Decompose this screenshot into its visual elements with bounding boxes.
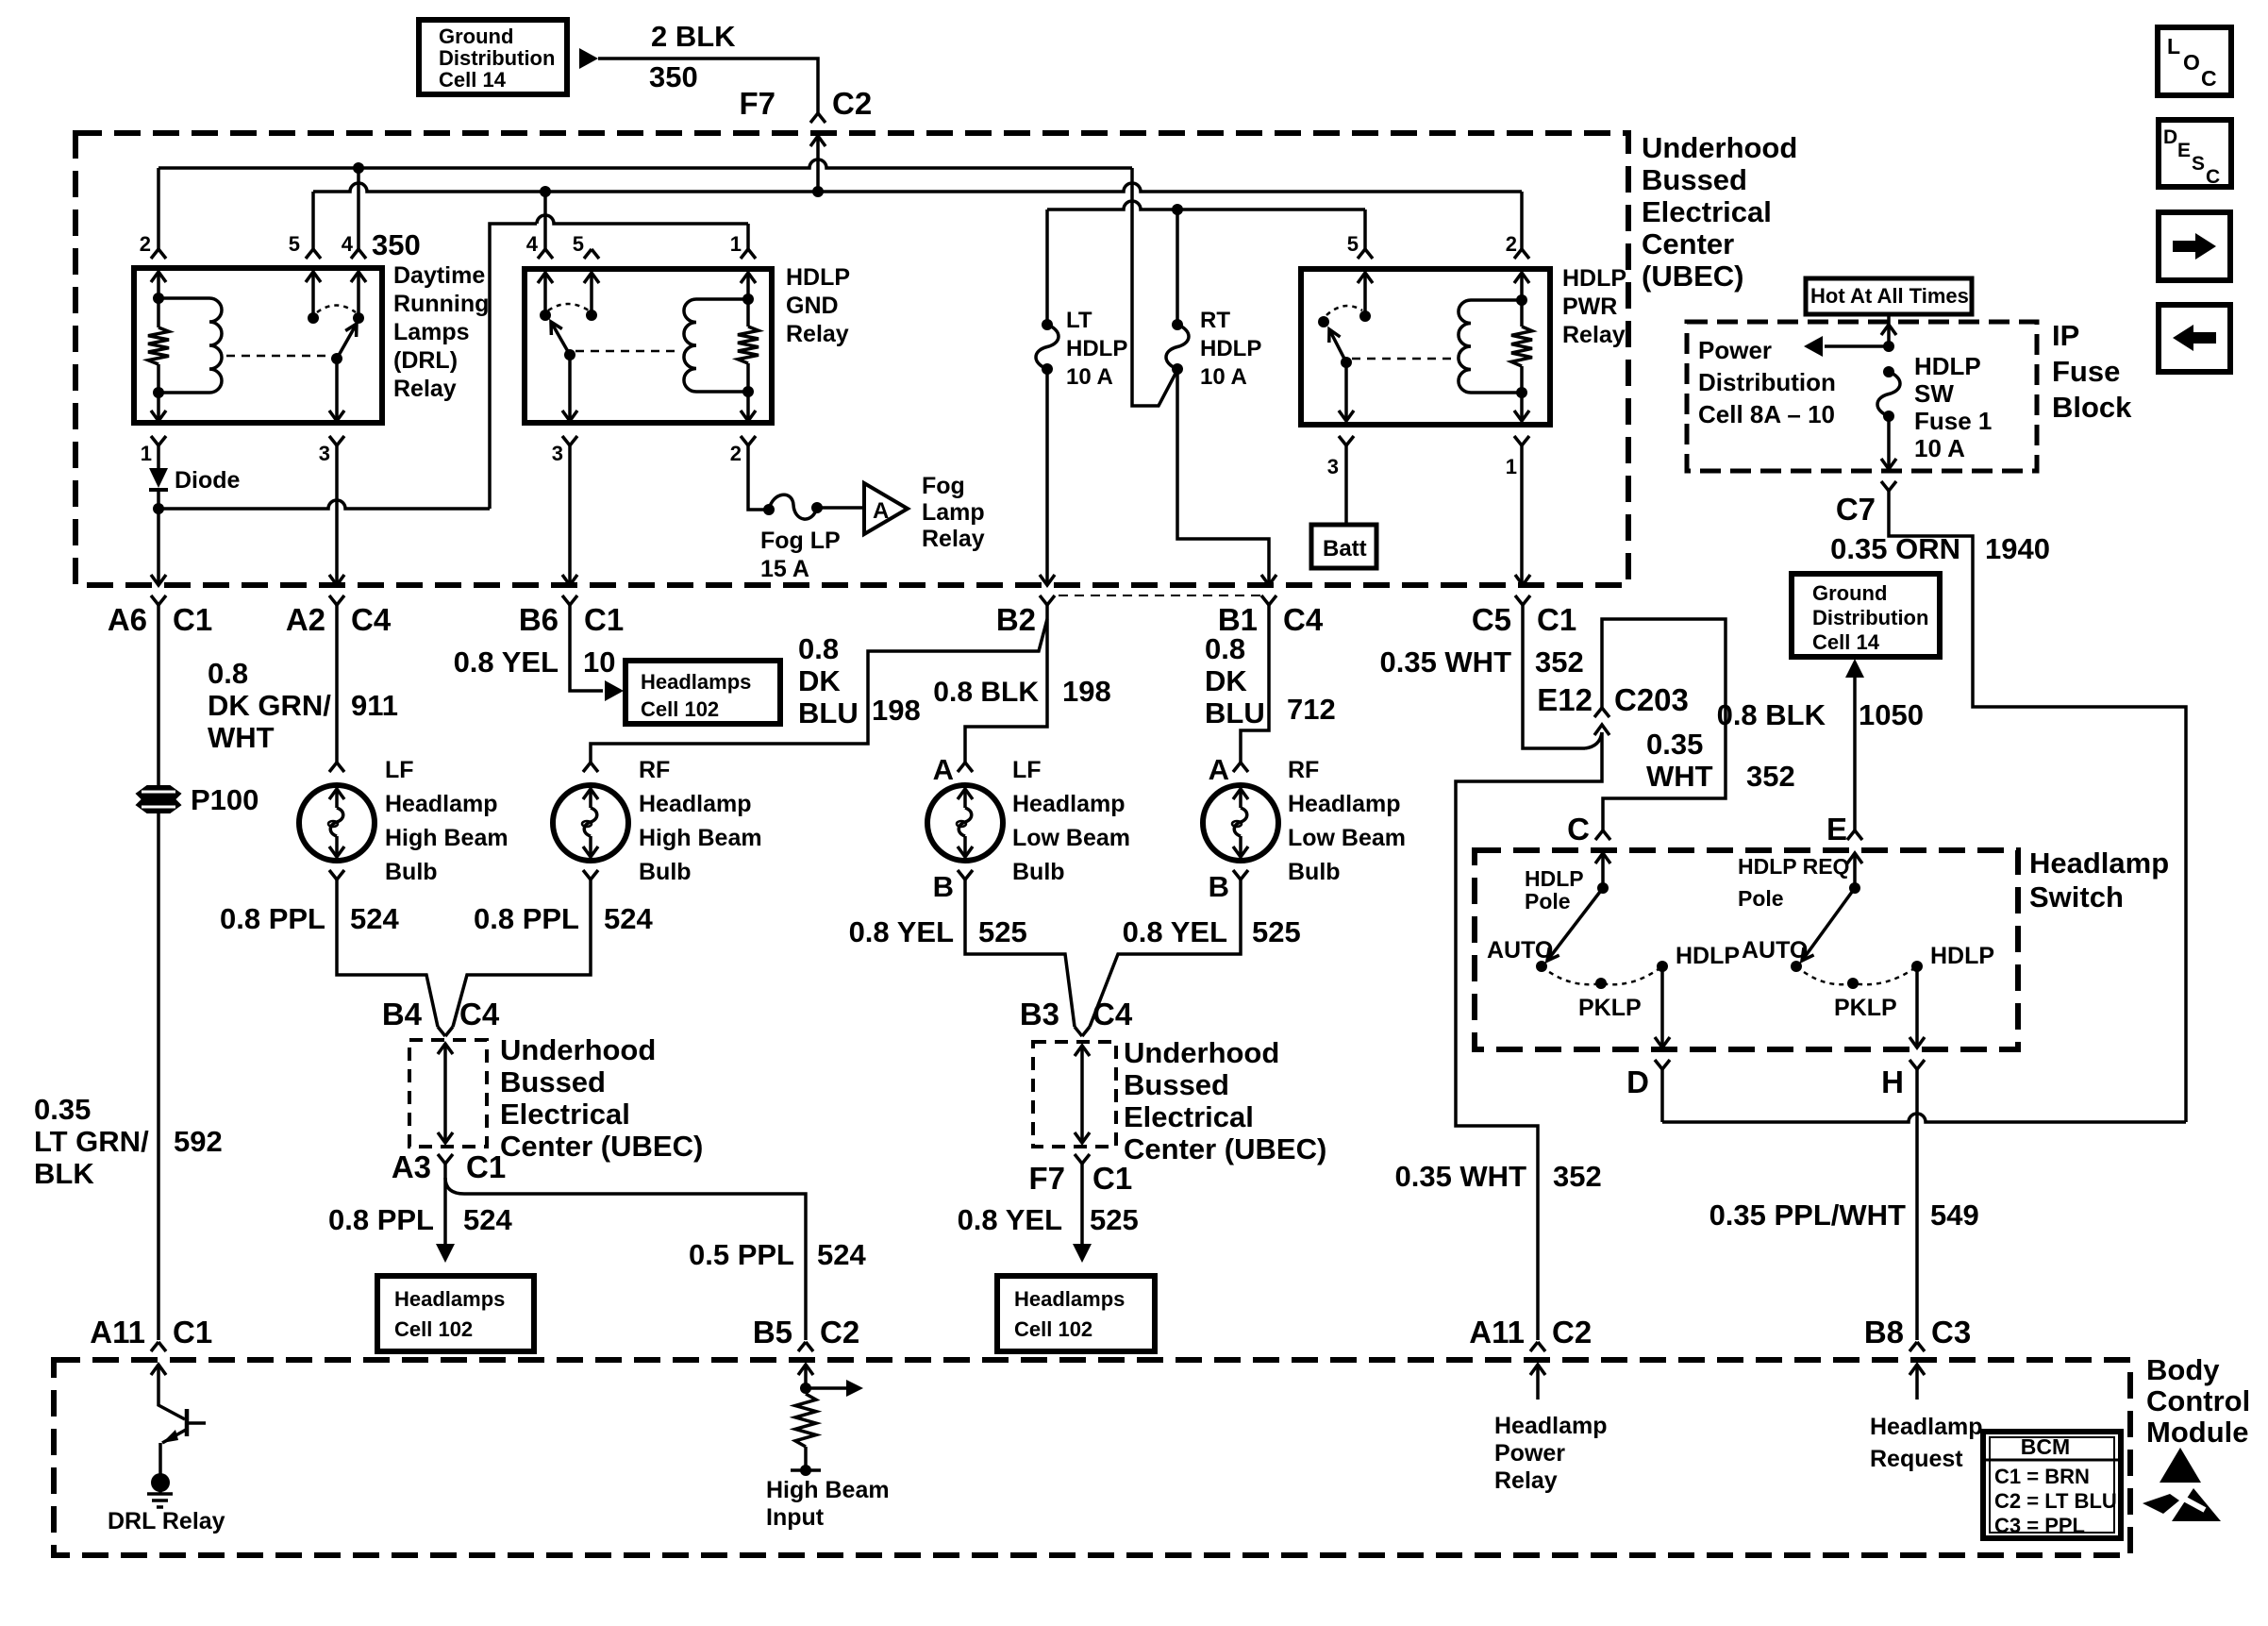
wire B1 to RF low bulb bbox=[1241, 605, 1269, 763]
HDLP GND pin4 stub bbox=[538, 273, 553, 283]
wire A2 to LF high bulb bbox=[335, 605, 339, 763]
connector LF high bulb B bbox=[329, 870, 344, 880]
svg-text:Module: Module bbox=[2146, 1416, 2249, 1449]
reference arrow to headlamps cell (A3) bbox=[436, 1244, 455, 1263]
switch E AUTO contact bbox=[1791, 961, 1802, 972]
wire RF high B to B4 bbox=[453, 880, 591, 1027]
resistor HDLP PWR bbox=[1520, 300, 1524, 327]
svg-text:Bulb: Bulb bbox=[1288, 859, 1341, 885]
svg-text:0.8 PPL: 0.8 PPL bbox=[220, 902, 325, 935]
DRL pin3 stub bbox=[335, 359, 339, 421]
svg-text:Ground: Ground bbox=[439, 25, 513, 48]
coil HDLP GND bbox=[684, 299, 696, 392]
svg-text:B6: B6 bbox=[519, 602, 559, 637]
svg-text:0.35: 0.35 bbox=[1646, 728, 1703, 761]
svg-text:C203: C203 bbox=[1614, 682, 1689, 717]
wire LF high B to B4 bbox=[337, 880, 438, 1027]
svg-text:DK GRN/: DK GRN/ bbox=[208, 689, 331, 722]
HDLP GND pivot bbox=[564, 349, 575, 360]
svg-text:0.8 YEL: 0.8 YEL bbox=[1123, 915, 1227, 948]
UBEC small dashed box (B3) bbox=[1033, 1042, 1116, 1147]
HDLP GND coil top junction bbox=[742, 293, 754, 305]
svg-text:Relay: Relay bbox=[1494, 1467, 1558, 1494]
svg-text:A: A bbox=[873, 498, 889, 524]
wire diode run horizontal bbox=[158, 500, 490, 509]
svg-text:Cell 8A – 10: Cell 8A – 10 bbox=[1698, 400, 1835, 428]
svg-text:524: 524 bbox=[604, 902, 653, 935]
switch E pole dot bbox=[1849, 882, 1860, 894]
svg-text:Center: Center bbox=[1642, 227, 1734, 260]
connector pin 2 HDLP PWR bbox=[1514, 249, 1529, 259]
switch C pole dot bbox=[1597, 882, 1609, 894]
ground symbol bbox=[147, 1492, 173, 1496]
svg-text:0.5 PPL: 0.5 PPL bbox=[689, 1238, 794, 1271]
wire DRL pin3 down to A2 bbox=[335, 445, 339, 585]
svg-text:Electrical: Electrical bbox=[1642, 195, 1772, 228]
svg-text:Fog LP: Fog LP bbox=[760, 528, 841, 554]
connector pin 1 HDLP GND bbox=[741, 249, 756, 259]
connector pin 2 DRL bbox=[151, 249, 166, 259]
dashed link between B2 and B1 connectors bbox=[1059, 595, 1261, 596]
svg-text:(UBEC): (UBEC) bbox=[1642, 260, 1744, 293]
svg-text:Underhood: Underhood bbox=[500, 1033, 656, 1066]
svg-text:Cell 14: Cell 14 bbox=[1812, 630, 1880, 654]
switch E blade bbox=[1802, 888, 1855, 961]
bulb LF headlamp low beam bbox=[927, 785, 1003, 861]
svg-text:525: 525 bbox=[1090, 1203, 1139, 1236]
svg-text:1: 1 bbox=[141, 442, 152, 465]
connector C5 C1 bbox=[1515, 575, 1530, 585]
svg-text:0.8 YEL: 0.8 YEL bbox=[454, 645, 559, 679]
svg-text:C1 = BRN: C1 = BRN bbox=[1994, 1465, 2090, 1488]
DRL pin2 stub bbox=[151, 272, 166, 282]
svg-text:P100: P100 bbox=[191, 783, 258, 816]
svg-text:592: 592 bbox=[174, 1125, 223, 1158]
svg-text:Relay: Relay bbox=[786, 321, 849, 347]
svg-text:Cell 102: Cell 102 bbox=[394, 1317, 473, 1341]
svg-text:Control: Control bbox=[2146, 1384, 2250, 1417]
connector D fork bbox=[1655, 1060, 1670, 1069]
svg-text:L: L bbox=[2167, 34, 2180, 59]
svg-text:Distribution: Distribution bbox=[1698, 368, 1836, 396]
svg-text:C4: C4 bbox=[459, 997, 500, 1031]
connector pin 4 HDLP GND bbox=[538, 249, 553, 259]
svg-text:Cell 102: Cell 102 bbox=[1014, 1317, 1092, 1341]
reference arrow to power distribution bbox=[1804, 336, 1823, 357]
svg-text:HDLP: HDLP bbox=[1200, 336, 1261, 361]
connector C (switch) bbox=[1595, 830, 1610, 840]
svg-text:B3: B3 bbox=[1020, 997, 1059, 1031]
svg-text:Diode: Diode bbox=[175, 467, 241, 494]
cell box Headlamps Cell 102 (left) bbox=[377, 1276, 534, 1351]
svg-text:Request: Request bbox=[1870, 1446, 1963, 1472]
HDLP GND contact pin4 bbox=[540, 310, 551, 321]
wire E12 branch to A11 bbox=[1456, 732, 1602, 1340]
svg-text:Bussed: Bussed bbox=[1642, 163, 1747, 196]
wire C5 down bbox=[1523, 605, 1585, 748]
wire bus2 dot to HDLP GND pin4 bbox=[543, 192, 547, 249]
B3 internal arrow bbox=[1075, 1046, 1090, 1056]
B8 C3 stem bbox=[1915, 1365, 1919, 1400]
svg-text:2: 2 bbox=[140, 232, 151, 256]
HDLP GND mech link bbox=[575, 350, 681, 353]
wire HDLP GND pin3 to B6 bbox=[568, 445, 572, 585]
coil HDLP PWR bbox=[1459, 300, 1471, 393]
svg-text:10 A: 10 A bbox=[1914, 434, 1965, 462]
svg-text:0.8 BLK: 0.8 BLK bbox=[1717, 698, 1826, 731]
connector pin 3 HDLP PWR bbox=[1339, 436, 1354, 445]
HDLP PWR pin3 stub bbox=[1344, 362, 1348, 421]
switch C blade bbox=[1547, 888, 1603, 961]
svg-text:A6: A6 bbox=[108, 602, 147, 637]
coil DRL bbox=[158, 296, 209, 300]
DRL mechanical link bbox=[226, 355, 330, 358]
connector A11 C2 (BCM) bbox=[1530, 1342, 1545, 1351]
HDLP PWR travel arc bbox=[1326, 306, 1362, 315]
svg-text:A: A bbox=[1209, 753, 1229, 786]
connector E12 C203 bbox=[1594, 708, 1609, 717]
wire P100 to A11 bbox=[157, 812, 160, 1340]
fuse HDLP SW Fuse 1 10A bbox=[1877, 372, 1900, 416]
high beam branch arrow bbox=[806, 1386, 846, 1390]
wire B2 branch to RF high bulb bbox=[591, 619, 1047, 763]
svg-text:B5: B5 bbox=[753, 1315, 792, 1349]
svg-text:0.8 PPL: 0.8 PPL bbox=[474, 902, 579, 935]
HDLP PWR coil bottom junction bbox=[1516, 387, 1527, 398]
wire 3 (relay pin5 feed) bbox=[1047, 201, 1365, 210]
wire bus1 dot to DRL pin4 bbox=[357, 168, 360, 249]
svg-text:LF: LF bbox=[1012, 757, 1042, 783]
svg-text:C1: C1 bbox=[1537, 602, 1576, 637]
cell box Headlamps Cell 102 (top) bbox=[625, 661, 780, 724]
next page nav box bbox=[2159, 212, 2230, 280]
resistor high beam input bbox=[795, 1394, 816, 1447]
svg-text:RF: RF bbox=[639, 757, 670, 783]
connector E (switch) bbox=[1847, 830, 1862, 840]
svg-text:D: D bbox=[1626, 1064, 1649, 1099]
svg-text:Headlamp: Headlamp bbox=[1870, 1414, 1982, 1440]
HDLP GND pin5 stub bbox=[584, 273, 599, 283]
wire bus1 right end down bbox=[1132, 168, 1177, 406]
connector pin 1 DRL bbox=[151, 436, 166, 445]
connector RF low bulb B bbox=[1233, 870, 1248, 880]
HDLP PWR coil top junction bbox=[1516, 294, 1527, 306]
svg-text:A11: A11 bbox=[90, 1315, 145, 1349]
svg-text:Relay: Relay bbox=[1562, 322, 1626, 348]
svg-text:B8: B8 bbox=[1864, 1315, 1904, 1349]
svg-text:LT: LT bbox=[1066, 308, 1092, 333]
wire B6 down to cell ref bbox=[570, 605, 603, 691]
svg-text:AUTO: AUTO bbox=[1742, 937, 1808, 964]
connector pin 4 DRL bbox=[351, 249, 366, 259]
svg-text:Underhood: Underhood bbox=[1642, 131, 1797, 164]
svg-text:C: C bbox=[2206, 166, 2220, 188]
switch E travel arc bbox=[1796, 966, 1917, 984]
svg-text:BLU: BLU bbox=[798, 696, 859, 729]
svg-text:Headlamp: Headlamp bbox=[1494, 1413, 1607, 1439]
svg-text:0.8: 0.8 bbox=[798, 632, 839, 665]
svg-text:SW: SW bbox=[1914, 379, 1954, 408]
switch C PKLP contact bbox=[1595, 978, 1607, 989]
svg-text:H: H bbox=[1881, 1064, 1904, 1099]
HDLP GND pin3 stub bbox=[568, 355, 572, 421]
svg-text:DK: DK bbox=[1205, 664, 1247, 697]
svg-text:Daytime: Daytime bbox=[393, 262, 485, 289]
junction high beam input bbox=[800, 1383, 811, 1394]
svg-text:5: 5 bbox=[573, 232, 584, 256]
connector B8 C3 (BCM) bbox=[1909, 1342, 1925, 1351]
svg-text:BLK: BLK bbox=[34, 1157, 94, 1190]
transistor DRL driver bbox=[158, 1365, 185, 1419]
wire hot to fuse bbox=[1887, 314, 1891, 325]
connector LF low bulb B bbox=[958, 870, 973, 880]
svg-text:Headlamp: Headlamp bbox=[385, 791, 497, 817]
svg-text:3: 3 bbox=[319, 442, 330, 465]
svg-text:Block: Block bbox=[2052, 391, 2132, 424]
connector pin 5 HDLP GND bbox=[584, 249, 599, 259]
UBEC small dashed box (B4) bbox=[409, 1040, 487, 1147]
svg-text:0.35: 0.35 bbox=[34, 1093, 91, 1126]
DRL pin5 stub bbox=[306, 272, 321, 282]
svg-text:911: 911 bbox=[351, 689, 398, 722]
svg-text:Headlamps: Headlamps bbox=[1014, 1287, 1125, 1311]
wire LT fuse to B2 bbox=[1045, 369, 1049, 585]
switch C pole stub bbox=[1601, 853, 1605, 888]
switch E HDLP contact bbox=[1911, 961, 1923, 972]
svg-text:3: 3 bbox=[552, 442, 563, 465]
wire D stub bbox=[1660, 1069, 1664, 1122]
svg-text:B2: B2 bbox=[996, 602, 1036, 637]
svg-text:Bussed: Bussed bbox=[1124, 1068, 1229, 1101]
svg-text:HDLP: HDLP bbox=[1066, 336, 1127, 361]
switch H output stub bbox=[1915, 966, 1919, 1048]
svg-text:A: A bbox=[933, 753, 954, 786]
svg-text:Electrical: Electrical bbox=[1124, 1100, 1254, 1133]
Batt box bbox=[1311, 525, 1376, 568]
connector B6 C1 bbox=[562, 575, 577, 585]
HDLP PWR NC contact bbox=[1318, 316, 1329, 327]
A11 C2 stem bbox=[1536, 1365, 1540, 1400]
HDLP PWR pin2 stub bbox=[1514, 273, 1529, 283]
resistor bottom tap bbox=[791, 1468, 821, 1472]
DRL coil bottom junction bbox=[153, 387, 164, 398]
svg-text:Power: Power bbox=[1698, 336, 1772, 364]
svg-text:B: B bbox=[933, 870, 954, 903]
Headlamp Switch dashed box bbox=[1475, 850, 2018, 1049]
svg-text:HDLP: HDLP bbox=[1525, 866, 1584, 891]
svg-text:524: 524 bbox=[350, 902, 399, 935]
svg-text:Electrical: Electrical bbox=[500, 1098, 630, 1131]
wire3 left end to LT fuse bbox=[1045, 210, 1049, 325]
wire D to ORN junction bbox=[1662, 1114, 2186, 1122]
connector pin 1 HDLP PWR bbox=[1514, 436, 1529, 445]
svg-text:5: 5 bbox=[1347, 232, 1359, 256]
svg-text:712: 712 bbox=[1287, 693, 1336, 726]
svg-text:C1: C1 bbox=[584, 602, 624, 637]
svg-text:352: 352 bbox=[1535, 645, 1584, 679]
connector H fork bbox=[1909, 1060, 1925, 1069]
svg-text:HDLP REQ: HDLP REQ bbox=[1738, 854, 1849, 879]
svg-text:15 A: 15 A bbox=[760, 556, 809, 582]
fuse Fog LP 15A bbox=[769, 495, 817, 519]
IP Fuse Block dashed box bbox=[1687, 322, 2037, 471]
HDLP PWR pin5 stub bbox=[1358, 273, 1373, 283]
wire diode run over pin4 wire bbox=[537, 215, 748, 224]
svg-text:O: O bbox=[2183, 50, 2200, 75]
wire pin1 to C5 bbox=[1520, 445, 1524, 585]
connector pin 3 HDLP GND bbox=[562, 436, 577, 445]
svg-text:WHT: WHT bbox=[1646, 760, 1713, 793]
svg-text:(DRL): (DRL) bbox=[393, 347, 458, 374]
svg-text:A11: A11 bbox=[1469, 1315, 1525, 1349]
svg-text:WHT: WHT bbox=[208, 721, 275, 754]
connector pin 3 DRL bbox=[329, 436, 344, 445]
reference arrow into ground cell (right) bbox=[1845, 659, 1864, 678]
grommet P100 bbox=[137, 786, 180, 798]
connector A6 C1 bbox=[151, 575, 166, 585]
svg-text:Relay: Relay bbox=[922, 526, 985, 552]
svg-text:C4: C4 bbox=[351, 602, 392, 637]
svg-text:0.8: 0.8 bbox=[1205, 632, 1245, 665]
switch C HDLP contact bbox=[1657, 961, 1668, 972]
svg-text:B: B bbox=[1209, 870, 1229, 903]
svg-text:4: 4 bbox=[342, 232, 354, 256]
HDLP PWR mech link bbox=[1352, 358, 1456, 360]
svg-text:Bulb: Bulb bbox=[1012, 859, 1065, 885]
wire to power distribution bbox=[1825, 344, 1889, 348]
svg-text:HDLP: HDLP bbox=[1930, 943, 1994, 969]
svg-text:Ground: Ground bbox=[1812, 581, 1887, 605]
svg-text:C2: C2 bbox=[1552, 1315, 1592, 1349]
svg-text:Bulb: Bulb bbox=[639, 859, 692, 885]
svg-text:LF: LF bbox=[385, 757, 414, 783]
svg-text:Lamps: Lamps bbox=[393, 319, 470, 345]
svg-text:PKLP: PKLP bbox=[1578, 995, 1642, 1021]
HDLP GND travel arc bbox=[548, 304, 589, 310]
svg-text:Running: Running bbox=[393, 291, 489, 317]
svg-text:Headlamp: Headlamp bbox=[2029, 847, 2169, 880]
svg-text:Lamp: Lamp bbox=[922, 499, 985, 526]
DRL contact pin5 bbox=[308, 312, 319, 324]
connector A2 C4 bbox=[329, 575, 344, 585]
svg-text:0.35 PPL/WHT: 0.35 PPL/WHT bbox=[1709, 1199, 1906, 1232]
svg-text:C4: C4 bbox=[1283, 602, 1324, 637]
transistor emitter ground dot bbox=[151, 1473, 170, 1492]
wire 2 BLK 350 to F7 bbox=[598, 59, 818, 113]
svg-text:HDLP: HDLP bbox=[1914, 352, 1981, 380]
connector A3 C1 fork bbox=[438, 1154, 453, 1164]
wire F7 stem bbox=[816, 136, 820, 192]
fuse RT HDLP 10A bbox=[1166, 325, 1189, 369]
svg-text:E: E bbox=[2177, 140, 2191, 161]
svg-text:Input: Input bbox=[766, 1504, 825, 1531]
svg-text:E12: E12 bbox=[1537, 682, 1593, 717]
svg-text:0.35 WHT: 0.35 WHT bbox=[1379, 645, 1511, 679]
svg-text:198: 198 bbox=[872, 694, 921, 727]
svg-text:Relay: Relay bbox=[393, 376, 457, 402]
svg-text:S: S bbox=[2192, 153, 2205, 175]
svg-text:2: 2 bbox=[1506, 232, 1517, 256]
reference arrow to headlamps cell (F7) bbox=[1073, 1244, 1092, 1263]
wire into fuse bbox=[1887, 325, 1891, 346]
diode bbox=[149, 468, 168, 488]
connector C7 fork bbox=[1881, 481, 1896, 491]
svg-text:C4: C4 bbox=[1092, 997, 1133, 1031]
svg-text:Distribution: Distribution bbox=[1812, 606, 1928, 629]
BCM dashed box bbox=[54, 1360, 2130, 1555]
bus wire 2 (ground bus 350) bbox=[313, 183, 1522, 192]
connector B5 C2 (BCM) bbox=[798, 1342, 813, 1351]
wire LF low B to B3 bbox=[965, 880, 1075, 1027]
connector B2 bbox=[1040, 575, 1055, 585]
svg-text:0.8 YEL: 0.8 YEL bbox=[849, 915, 954, 948]
switch C AUTO contact bbox=[1536, 961, 1547, 972]
svg-text:RT: RT bbox=[1200, 308, 1230, 333]
svg-text:F7: F7 bbox=[1028, 1161, 1065, 1196]
svg-text:Pole: Pole bbox=[1525, 889, 1571, 914]
svg-text:C3 = PPL: C3 = PPL bbox=[1994, 1514, 2085, 1537]
svg-text:549: 549 bbox=[1930, 1199, 1979, 1232]
DRL contact pin4 bbox=[353, 312, 364, 324]
svg-text:Batt: Batt bbox=[1323, 536, 1367, 562]
svg-text:HDLP: HDLP bbox=[786, 264, 850, 291]
svg-text:Headlamp: Headlamp bbox=[1288, 791, 1400, 817]
svg-text:Hot At All Times: Hot At All Times bbox=[1810, 284, 1969, 308]
wire C7 to right side bbox=[1889, 491, 2186, 1122]
connector LF low bulb A bbox=[958, 763, 973, 772]
svg-text:LT GRN/: LT GRN/ bbox=[34, 1125, 149, 1158]
HDLP GND pin2 stub bbox=[746, 392, 750, 421]
svg-text:Low Beam: Low Beam bbox=[1012, 825, 1130, 851]
wire diode run up and over to HDLP GND pin1 bbox=[490, 224, 537, 509]
wire bus2 right end to HDLP PWR pin2 bbox=[1520, 192, 1524, 249]
svg-text:E: E bbox=[1826, 812, 1847, 847]
svg-text:RF: RF bbox=[1288, 757, 1319, 783]
svg-text:Distribution: Distribution bbox=[439, 46, 555, 70]
relay box DRL bbox=[134, 268, 382, 423]
svg-text:C1: C1 bbox=[1092, 1161, 1132, 1196]
fog lamp relay triangle bbox=[864, 483, 908, 534]
BCM connector table box bbox=[1983, 1432, 2121, 1538]
svg-text:C2: C2 bbox=[832, 86, 872, 121]
svg-text:Center (UBEC): Center (UBEC) bbox=[1124, 1132, 1326, 1165]
svg-text:C3: C3 bbox=[1931, 1315, 1971, 1349]
wire E to ground cell bbox=[1853, 676, 1857, 830]
junction hot feed bbox=[1883, 341, 1894, 352]
svg-text:0.35 ORN: 0.35 ORN bbox=[1830, 532, 1960, 565]
HDLP PWR pivot bbox=[1341, 357, 1352, 368]
bulb LF headlamp high beam bbox=[299, 785, 375, 861]
wire HDLP GND pin2 to fog fuse bbox=[748, 445, 767, 510]
svg-text:0.8: 0.8 bbox=[208, 657, 248, 690]
fuse output arrow bbox=[1887, 416, 1891, 469]
wire RF low B to B3 bbox=[1090, 880, 1241, 1027]
svg-text:BCM: BCM bbox=[2021, 1434, 2070, 1459]
junction diode output bbox=[153, 503, 164, 514]
svg-text:Headlamp: Headlamp bbox=[1012, 791, 1125, 817]
wire DRL pin1 to diode bbox=[157, 445, 160, 468]
switch C travel arc bbox=[1542, 966, 1662, 984]
svg-text:Headlamps: Headlamps bbox=[641, 670, 751, 694]
svg-text:525: 525 bbox=[1252, 915, 1301, 948]
svg-text:Headlamps: Headlamps bbox=[394, 1287, 505, 1311]
DRL contact travel arc bbox=[317, 306, 356, 313]
svg-text:1: 1 bbox=[1506, 455, 1517, 478]
switch E PKLP contact bbox=[1847, 978, 1859, 989]
svg-text:5: 5 bbox=[289, 232, 300, 256]
wire curve into E12 bbox=[1585, 732, 1602, 748]
svg-text:IP: IP bbox=[2052, 319, 2079, 352]
